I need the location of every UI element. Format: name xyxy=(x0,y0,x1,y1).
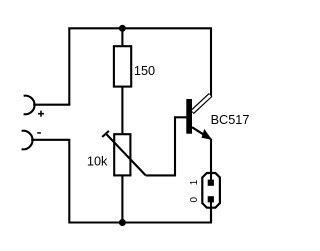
svg-text:BC517: BC517 xyxy=(211,113,250,127)
wire: R1 bottom to potentiometer P1 top xyxy=(121,87,123,135)
switch S1 top contact xyxy=(208,180,214,186)
svg-text:150: 150 xyxy=(134,64,155,78)
connector X1 plus (arc) xyxy=(24,96,35,115)
svg-text:10k: 10k xyxy=(87,155,108,169)
wire: plus terminal horizontal xyxy=(33,104,70,106)
svg-text:1: 1 xyxy=(189,179,200,185)
resistor R1 box xyxy=(114,46,131,86)
junction dot bottom xyxy=(119,219,126,226)
switch S1 outline (chamfered box) xyxy=(202,173,220,208)
wire: top rail to resistor R1 xyxy=(121,28,123,47)
label + xyxy=(38,111,44,117)
svg-text:0: 0 xyxy=(189,196,200,202)
transistor Q1 collector (outlined line) xyxy=(192,95,211,112)
wire: minus terminal horizontal, down left rail to bottom xyxy=(31,140,211,223)
potentiometer P1 box xyxy=(114,134,130,175)
switch S1 bottom contact xyxy=(208,196,214,202)
potentiometer wiper end tick xyxy=(102,131,109,137)
connector X2 minus (arc) xyxy=(22,131,33,150)
transistor Q1 base bar xyxy=(186,99,192,134)
label - xyxy=(37,132,41,134)
wire: wiper to transistor base xyxy=(146,117,187,175)
transistor Q1 emitter with arrow xyxy=(192,127,211,139)
potentiometer wiper diagonal xyxy=(106,134,146,176)
junction dot top xyxy=(119,25,126,32)
wire: top rail from left branch corner to right rail corner xyxy=(69,28,211,104)
wire: switch bottom to bottom rail xyxy=(210,199,212,223)
wire: P1 bottom to bottom rail xyxy=(121,175,123,222)
wire: emitter down to switch S1 xyxy=(210,139,212,182)
